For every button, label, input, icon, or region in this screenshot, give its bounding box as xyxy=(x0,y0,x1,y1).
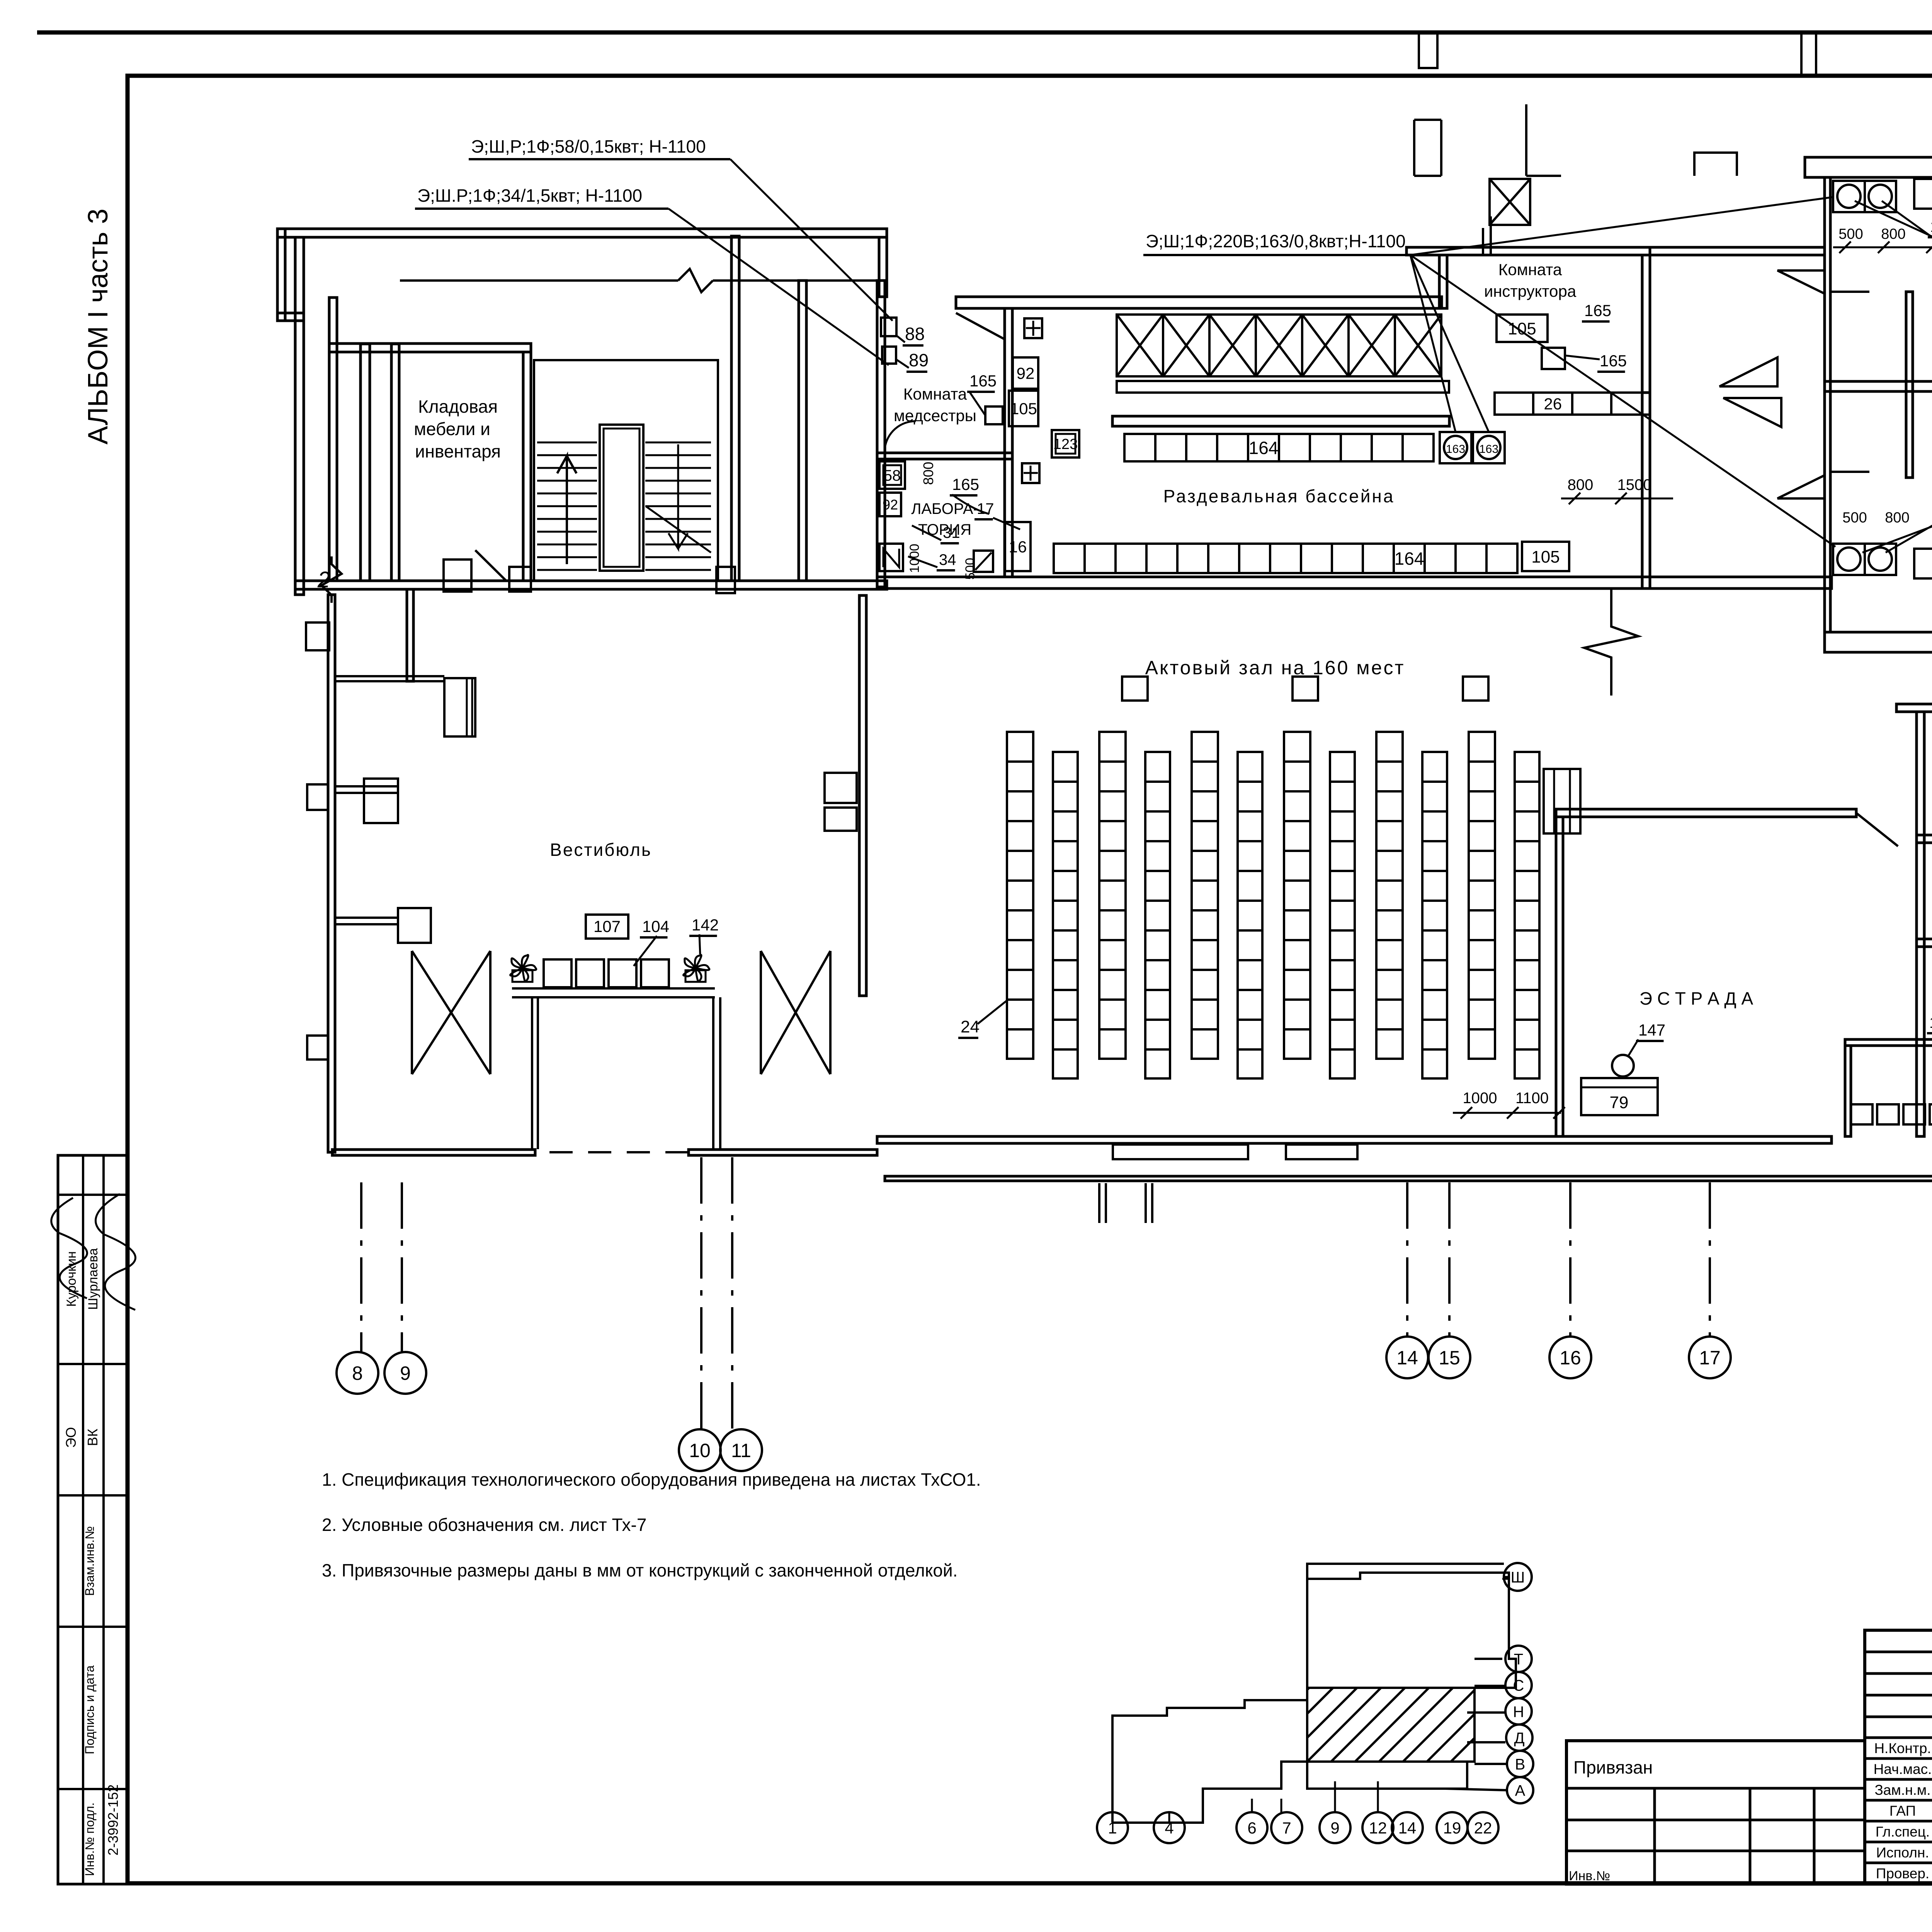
axis line 17 xyxy=(1709,1182,1711,1337)
wall jog between north walls xyxy=(879,237,887,297)
stub wall upper xyxy=(335,786,398,793)
wall: inventory room west wall xyxy=(1917,712,1924,1136)
svg-text:инструктора: инструктора xyxy=(1484,282,1577,300)
equipment box small left of 16 xyxy=(974,551,993,572)
wall: artist room west wall xyxy=(1845,1046,1851,1136)
svg-text:15: 15 xyxy=(1439,1347,1460,1369)
svg-text:4: 4 xyxy=(1165,1819,1173,1837)
axis circle 10 xyxy=(679,1429,721,1471)
svg-text:Курочкин: Курочкин xyxy=(64,1251,79,1307)
break symbol on corridor line xyxy=(678,269,713,292)
svg-text:ВК: ВК xyxy=(85,1429,100,1446)
svg-text:123: 123 xyxy=(1053,436,1078,452)
equipment box 16 xyxy=(1005,522,1031,571)
seat strip 4b xyxy=(1330,752,1355,1078)
wall-mounted plus-box a xyxy=(1024,318,1042,338)
locker row 164 (lower) xyxy=(1054,544,1517,573)
lockers with X-bracing (corridor row) xyxy=(1117,315,1441,376)
washbasins 163 (pool) xyxy=(1440,432,1471,463)
svg-text:163: 163 xyxy=(1479,443,1498,456)
svg-text:ГАП: ГАП xyxy=(1889,1803,1916,1819)
north small stub a xyxy=(1414,120,1441,176)
seat strip 2a xyxy=(1099,732,1126,1059)
box on vestibule-stair wall xyxy=(444,560,471,592)
partition in shower area xyxy=(1906,292,1913,478)
svg-text:Т: Т xyxy=(1514,1651,1523,1668)
axis circle 9 xyxy=(384,1352,426,1394)
svg-text:58: 58 xyxy=(884,467,901,484)
svg-text:88: 88 xyxy=(905,324,925,344)
svg-text:Нач.мас.: Нач.мас. xyxy=(1874,1761,1932,1777)
key plan axis circle 12 xyxy=(1362,1812,1393,1843)
key plan axis circle 4 xyxy=(1154,1812,1185,1843)
svg-text:163: 163 xyxy=(1930,218,1932,235)
washbasins 163 top xyxy=(1833,181,1865,212)
north small stub b xyxy=(1526,104,1561,176)
door leaf stage right xyxy=(1856,813,1898,846)
locker row 164 right-top xyxy=(1914,179,1932,209)
stub wall mid xyxy=(335,918,399,924)
wall: top-left block west wall xyxy=(295,237,304,595)
small box 165 instructor xyxy=(1542,348,1565,369)
key plan outline left wing xyxy=(1112,1579,1307,1823)
svg-text:Н.Контр.: Н.Контр. xyxy=(1874,1740,1931,1756)
svg-text:Провер.: Провер. xyxy=(1876,1866,1929,1881)
tambour walls xyxy=(512,988,715,997)
svg-text:Э;Ш.Р;1Ф;34/1,5квт; Н-1100: Э;Ш.Р;1Ф;34/1,5квт; Н-1100 xyxy=(417,185,642,206)
stair (top-left): lift shaft xyxy=(600,425,643,571)
svg-text:26: 26 xyxy=(1544,395,1562,413)
leaders from feeder 3 xyxy=(1410,197,1835,547)
flower pot right xyxy=(684,955,709,982)
key plan axis circle 19 xyxy=(1437,1812,1468,1843)
key plan axis circle Ш xyxy=(1504,1563,1532,1591)
equipment box 105 xyxy=(1009,391,1038,426)
axis line 15 xyxy=(1448,1182,1451,1337)
wall: right block south wall xyxy=(1825,632,1932,652)
wall: duct shaft wall A xyxy=(329,298,337,581)
equipment box 105 pool xyxy=(1522,542,1569,571)
stage column xyxy=(1544,769,1580,833)
washbasins 163 bottom xyxy=(1833,544,1865,575)
closet box on vestibule wall xyxy=(444,678,475,736)
svg-text:Кладовая: Кладовая xyxy=(418,396,498,417)
wall: right block north wall xyxy=(1805,157,1932,177)
equipment box N xyxy=(879,544,903,571)
key plan axis circle В xyxy=(1507,1751,1533,1777)
wall: corridor line under north wall xyxy=(400,279,877,282)
svg-text:12: 12 xyxy=(1369,1819,1387,1837)
svg-text:16: 16 xyxy=(1009,538,1027,556)
svg-text:Э;Ш;1Ф;220В;163/0,8квт;Н-1100: Э;Ш;1Ф;220В;163/0,8квт;Н-1100 xyxy=(1146,231,1406,251)
svg-text:Зам.н.м.: Зам.н.м. xyxy=(1874,1782,1930,1798)
svg-text:105: 105 xyxy=(1010,400,1037,418)
svg-text:165: 165 xyxy=(1600,352,1627,370)
flower pot left xyxy=(510,955,536,982)
wall: right block west wall xyxy=(1825,177,1830,632)
seat strip 5a xyxy=(1376,732,1403,1059)
axis line 8 xyxy=(360,1182,362,1352)
key plan axis circle Д xyxy=(1506,1725,1532,1751)
entrance door X right xyxy=(761,951,830,1074)
key plan axis circle А xyxy=(1507,1777,1533,1803)
svg-text:1: 1 xyxy=(1108,1819,1117,1837)
stair column feet xyxy=(509,567,531,592)
fold mark box top centre-left xyxy=(1419,32,1437,68)
svg-text:17: 17 xyxy=(977,500,994,517)
svg-text:10: 10 xyxy=(689,1440,711,1461)
wall: duct shaft wall B xyxy=(361,344,370,581)
svg-text:Инв.№ подл.: Инв.№ подл. xyxy=(83,1803,97,1876)
artist small boxes row xyxy=(1851,1104,1872,1124)
svg-text:800: 800 xyxy=(920,462,936,485)
svg-text:АЛЬБОМ I часть 3: АЛЬБОМ I часть 3 xyxy=(83,209,114,445)
hall south outer line xyxy=(885,1176,1932,1181)
key plan axis circle Н xyxy=(1505,1698,1532,1725)
svg-text:105: 105 xyxy=(1531,548,1560,566)
svg-text:164: 164 xyxy=(1249,438,1279,458)
axis circle 15 xyxy=(1429,1337,1470,1378)
svg-text:2. Условные обозначения: 2. Условные обозначения см. лист Тх-7 xyxy=(322,1515,646,1535)
svg-text:500: 500 xyxy=(1842,510,1867,526)
paper top edge line xyxy=(37,31,1932,35)
wall: partition east of laboratory xyxy=(1005,308,1012,577)
equipment box 92 xyxy=(1013,357,1038,389)
equipment box 165 nurse xyxy=(985,406,1003,424)
seat strip 2b xyxy=(1145,752,1170,1078)
wall: north wall of pool-changing band xyxy=(956,297,1442,308)
seat strip 6b xyxy=(1515,752,1539,1078)
svg-text:1000: 1000 xyxy=(1463,1090,1497,1107)
wall under bench xyxy=(1112,416,1449,426)
svg-text:165: 165 xyxy=(952,475,979,493)
svg-text:1500: 1500 xyxy=(1617,476,1652,493)
seat strip 3b xyxy=(1238,752,1262,1078)
stair (top-left): enclosure xyxy=(534,360,718,581)
svg-text:А: А xyxy=(1515,1782,1526,1799)
svg-text:Актовый зал на 160 мест: Актовый зал на 160 мест xyxy=(1145,657,1405,679)
wall: connection instructor to right block xyxy=(1650,247,1825,255)
svg-text:Комната: Комната xyxy=(1498,260,1562,279)
key plan axis circle 1 xyxy=(1097,1812,1128,1843)
wall: corridor piece above stage xyxy=(1642,393,1650,588)
svg-text:6: 6 xyxy=(1247,1819,1256,1837)
key plan axis leader lines xyxy=(1502,1577,1509,1579)
svg-text:22: 22 xyxy=(1474,1819,1492,1837)
svg-text:800: 800 xyxy=(1881,226,1905,242)
seat strip 5b xyxy=(1422,752,1447,1078)
wall: top-left block corner step xyxy=(277,229,285,321)
svg-text:Вестибюль: Вестибюль xyxy=(550,840,652,860)
svg-text:92: 92 xyxy=(883,497,898,512)
svg-text:Н: Н xyxy=(1513,1703,1524,1720)
svg-text:14: 14 xyxy=(1396,1347,1418,1369)
equipment box 58 xyxy=(879,461,905,489)
svg-text:19: 19 xyxy=(1443,1819,1461,1837)
key plan axis circle 7 xyxy=(1271,1812,1302,1843)
key plan axis circle 9 xyxy=(1320,1812,1350,1843)
svg-text:Гл.спец.: Гл.спец. xyxy=(1876,1824,1930,1840)
key plan tall block xyxy=(1307,1573,1516,1688)
svg-text:800: 800 xyxy=(1568,476,1594,493)
axis line 9 xyxy=(401,1182,403,1352)
key plan bottom axis leaders xyxy=(1112,1781,1378,1823)
wall: mid wall of right block xyxy=(1825,381,1932,391)
seat strip 3a xyxy=(1192,732,1218,1059)
wall: vestibule south wall solid right xyxy=(689,1150,877,1155)
svg-text:Комната: Комната xyxy=(903,385,967,403)
wall: vestibule north partition xyxy=(407,589,413,681)
exit thresholds below hall south wall xyxy=(1113,1145,1248,1159)
wall: stage west wall xyxy=(1556,817,1563,1136)
svg-text:7: 7 xyxy=(1282,1819,1291,1837)
leader from feeder 1 xyxy=(730,159,893,321)
svg-text:17: 17 xyxy=(1699,1347,1721,1369)
svg-text:142: 142 xyxy=(692,916,719,934)
svg-text:107: 107 xyxy=(594,917,621,935)
svg-text:инвентаря: инвентаря xyxy=(415,441,501,461)
zigzag break on hall east wall xyxy=(1584,588,1638,696)
svg-text:165: 165 xyxy=(1584,301,1611,320)
pilasters on vestibule west wall xyxy=(306,622,329,650)
svg-text:С: С xyxy=(1513,1677,1524,1694)
equipment box 79 xyxy=(1581,1078,1658,1115)
wall: corridor east of stair xyxy=(799,281,806,581)
svg-text:500: 500 xyxy=(1838,226,1863,242)
svg-text:34: 34 xyxy=(939,551,956,568)
boxes above seat strips xyxy=(1122,677,1148,701)
door leaf at pool band entry xyxy=(956,313,1005,339)
svg-text:165: 165 xyxy=(969,372,997,390)
stair (top-left): steps xyxy=(537,442,711,570)
axis line 11 xyxy=(731,1157,733,1429)
equipment box 105 instructor xyxy=(1497,315,1548,342)
key plan axis circle 6 xyxy=(1236,1812,1267,1843)
entrance door X left xyxy=(412,951,490,1074)
leader from feeder 2 xyxy=(668,209,889,365)
hall south inner wall xyxy=(877,1136,1832,1143)
wall: west wall of nurse room xyxy=(877,281,885,587)
wall: south wall of pool band / hall north wall xyxy=(877,577,1832,588)
key plan axis circle С xyxy=(1505,1672,1532,1698)
seat strip 1a xyxy=(1007,732,1033,1059)
locker row 164 (upper) xyxy=(1124,434,1434,461)
fold mark top centre xyxy=(1801,32,1816,76)
vestibule chairs row xyxy=(544,959,571,987)
svg-text:3. Привязочные размеры д: 3. Привязочные размеры даны в мм от конс… xyxy=(322,1560,957,1580)
svg-text:1000: 1000 xyxy=(907,544,922,573)
svg-text:104: 104 xyxy=(1929,1014,1932,1031)
svg-text:105: 105 xyxy=(1508,319,1536,338)
equipment box 88 xyxy=(881,318,896,336)
svg-text:89: 89 xyxy=(909,350,929,370)
svg-text:8: 8 xyxy=(352,1362,363,1384)
svg-text:Подпись и дата: Подпись и дата xyxy=(83,1665,97,1754)
axis circle 8 xyxy=(337,1352,378,1394)
key plan axis circle 22 xyxy=(1468,1812,1498,1843)
svg-text:Ш: Ш xyxy=(1511,1569,1525,1586)
axis circle 17 xyxy=(1689,1337,1731,1378)
svg-text:Д: Д xyxy=(1514,1730,1524,1747)
wall: storeroom west wall xyxy=(391,344,399,581)
wall: storeroom north wall xyxy=(329,344,531,352)
svg-text:79: 79 xyxy=(1610,1093,1629,1112)
svg-text:Шурлаева: Шурлаева xyxy=(86,1248,100,1310)
wall: top-left block south wall xyxy=(295,581,887,589)
key plan axis circle 14 xyxy=(1392,1812,1423,1843)
wall: east vestibule wall xyxy=(859,595,866,996)
axis circle 14 xyxy=(1386,1337,1428,1378)
wall: instructor west connector xyxy=(1439,255,1447,308)
wall: top-left block north wall xyxy=(277,229,887,237)
equipment box 89 xyxy=(882,347,896,364)
svg-text:Привязан: Привязан xyxy=(1573,1757,1653,1777)
equipment box 92 lab xyxy=(879,493,901,516)
key plan hatched block xyxy=(1307,1688,1475,1762)
svg-text:14: 14 xyxy=(1398,1819,1417,1837)
svg-text:Э;Ш,Р;1Ф;58/0,15квт; Н-1100: Э;Ш,Р;1Ф;58/0,15квт; Н-1100 xyxy=(471,136,706,156)
wall: inventory north wall xyxy=(1917,835,1932,843)
axis circle 16 xyxy=(1549,1337,1591,1378)
corner boxes near hall entry xyxy=(825,773,857,803)
left margin stamp table xyxy=(58,1155,128,1884)
shelf 26 instructor xyxy=(1495,393,1650,415)
door wedges corridor xyxy=(1719,357,1777,386)
wall stub vestibule to closet xyxy=(335,676,444,681)
wall: corridor wall above inventory xyxy=(1896,704,1932,712)
key plan axis circle Т xyxy=(1505,1646,1532,1672)
wall: stage north wall xyxy=(1556,809,1856,817)
wall: instructor north wall xyxy=(1406,247,1650,255)
stair (top-left): arrows and cut xyxy=(557,456,577,564)
equipment circle 147 xyxy=(1612,1055,1634,1077)
seat strip 4a xyxy=(1284,732,1310,1059)
axis circle 11 xyxy=(720,1429,762,1471)
svg-text:ЭО: ЭО xyxy=(63,1427,79,1448)
X-brace closet above instructor room xyxy=(1490,179,1530,225)
wall: partition nurse/laboratory xyxy=(877,453,1012,459)
wall: east of stair xyxy=(731,236,739,581)
svg-text:92: 92 xyxy=(1017,364,1035,383)
wall: artist room north wall xyxy=(1845,1039,1932,1046)
svg-text:163: 163 xyxy=(1446,443,1465,456)
equipment box 123 xyxy=(1052,430,1079,457)
svg-text:2-3992-152: 2-3992-152 xyxy=(105,1784,121,1855)
wall stub above instructor xyxy=(1483,216,1491,255)
svg-text:Взам.инв.№: Взам.инв.№ xyxy=(83,1526,97,1596)
svg-text:164: 164 xyxy=(1395,549,1424,569)
wall: instructor east wall xyxy=(1642,255,1650,393)
svg-text:ЛАБОРА-: ЛАБОРА- xyxy=(911,500,978,517)
svg-text:147: 147 xyxy=(1638,1021,1665,1039)
bench under X-lockers xyxy=(1117,381,1449,393)
svg-text:1. Спецификация технологич: 1. Спецификация технологического оборудо… xyxy=(322,1469,981,1490)
label 107 xyxy=(586,915,628,939)
signature scribbles xyxy=(51,1198,87,1298)
door leaf: storeroom xyxy=(475,550,506,581)
locker row 164 right-bottom xyxy=(1914,549,1932,578)
svg-text:Исполн.: Исполн. xyxy=(1876,1845,1929,1861)
svg-text:24: 24 xyxy=(961,1017,980,1036)
wall: partition inventory/storeroom right xyxy=(1917,939,1932,947)
seat strip 6a xyxy=(1469,732,1495,1059)
door arc laboratory xyxy=(885,421,916,448)
svg-text:9: 9 xyxy=(400,1362,411,1384)
svg-text:В: В xyxy=(1515,1756,1526,1773)
svg-text:Инв.№: Инв.№ xyxy=(1569,1869,1610,1883)
svg-text:Раздевальная бассейна: Раздевальная бассейна xyxy=(1163,486,1395,506)
svg-text:800: 800 xyxy=(1885,510,1909,526)
door wedges into right block xyxy=(1777,270,1825,294)
stage door posts below hall xyxy=(1099,1183,1152,1223)
wall: vestibule south wall solid left xyxy=(332,1150,535,1155)
title block: Привязан box xyxy=(1566,1741,1865,1884)
axis line 14 xyxy=(1406,1182,1408,1337)
seat strip 1b xyxy=(1053,752,1078,1078)
axis line 16 xyxy=(1569,1182,1571,1337)
svg-text:104: 104 xyxy=(642,917,669,935)
svg-text:мебели и: мебели и xyxy=(414,419,490,439)
wall: vestibule west wall xyxy=(328,595,335,1152)
axis line 10 xyxy=(700,1157,702,1429)
vestibule south dashed opening xyxy=(549,1151,689,1153)
svg-text:1100: 1100 xyxy=(1515,1090,1549,1107)
title block: signatures table xyxy=(1865,1630,1932,1884)
north notch xyxy=(1694,153,1737,176)
wall: storeroom east wall xyxy=(523,352,531,581)
svg-text:9: 9 xyxy=(1330,1819,1339,1837)
svg-text:11: 11 xyxy=(731,1440,751,1461)
wall-mounted plus-box b xyxy=(1022,463,1039,483)
svg-text:16: 16 xyxy=(1560,1347,1581,1369)
svg-text:Э С Т Р А Д А: Э С Т Р А Д А xyxy=(1639,988,1753,1009)
svg-text:31: 31 xyxy=(943,524,960,541)
